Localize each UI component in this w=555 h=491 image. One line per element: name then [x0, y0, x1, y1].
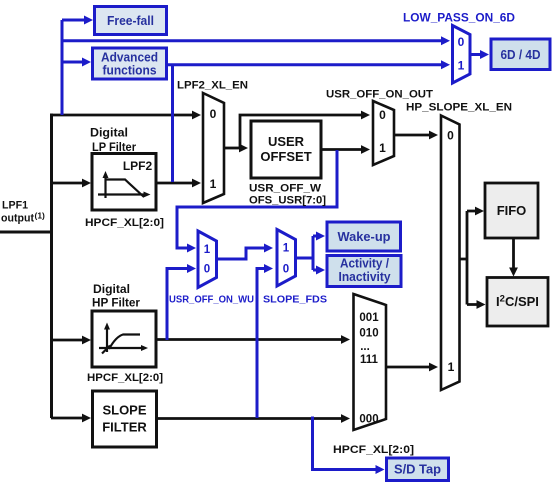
svg-text:Activity /: Activity /	[340, 257, 389, 271]
svg-text:OFS_USR[7:0]: OFS_USR[7:0]	[249, 195, 326, 207]
wire HP_SLOPE mux output to FIFO and I2C/SPI	[459, 211, 477, 305]
wire blue riser to Free-fall and Advanced functions	[62, 20, 85, 115]
icon LP filter response curve	[104, 175, 106, 198]
wire blue from Advanced functions to LOW_PASS_ON_6D mux input 1	[167, 63, 442, 66]
svg-text:Free-fall: Free-fall	[107, 14, 154, 28]
svg-text:0: 0	[283, 264, 289, 276]
wire blue from HP filter output to USR_OFF_ON_WU mux input 0	[167, 269, 188, 341]
mux HPCF_XL selector 001..111 / 000	[354, 294, 387, 430]
svg-text:OFFSET: OFFSET	[260, 149, 311, 164]
wire trunk to SLOPE FILTER box input	[51, 417, 83, 420]
mux LPF2_XL_EN	[203, 93, 224, 203]
svg-text:1: 1	[448, 360, 455, 374]
svg-text:LOW_PASS_ON_6D: LOW_PASS_ON_6D	[403, 13, 515, 25]
wire main trunk vertical	[50, 114, 53, 419]
svg-text:USER: USER	[268, 134, 305, 149]
wire trunk to LPF2 box input	[51, 182, 83, 185]
wire LPF2 box output to mux input 1	[156, 182, 193, 185]
wire blue from SLOPE FILTER output to SLOPE_FDS mux input 0	[257, 269, 265, 419]
wire LPF1 output into trunk	[0, 231, 52, 234]
wire bypass over USER OFFSET to USR_OFF_ON_OUT mux input 0	[240, 115, 362, 148]
svg-text:HPCF_XL[2:0]: HPCF_XL[2:0]	[87, 372, 163, 384]
icon HP filter response curve	[106, 328, 108, 352]
svg-text:FIFO: FIFO	[497, 203, 527, 218]
svg-text:0: 0	[210, 107, 217, 121]
box 6D / 4D	[491, 39, 550, 70]
wire HPCF mux output to HP_SLOPE mux input 1	[386, 366, 430, 369]
box USER OFFSET	[251, 121, 321, 178]
svg-text:001: 001	[359, 312, 379, 324]
svg-text:LPF2: LPF2	[123, 159, 153, 173]
svg-text:FILTER: FILTER	[102, 420, 147, 435]
svg-text:Inactivity: Inactivity	[339, 270, 391, 284]
svg-text:...: ...	[360, 341, 370, 353]
svg-text:SLOPE_FDS: SLOPE_FDS	[263, 294, 327, 306]
svg-text:USR_OFF_ON_WU: USR_OFF_ON_WU	[169, 294, 254, 306]
svg-text:Digital: Digital	[93, 284, 130, 296]
wire SLOPE_FDS mux output to Wake-up and Activity	[296, 236, 318, 270]
svg-text:USR_OFF_ON_OUT: USR_OFF_ON_OUT	[326, 89, 433, 101]
box Activity / Inactivity	[327, 256, 401, 287]
mux USR_OFF_ON_WU blue	[198, 231, 217, 288]
svg-text:0: 0	[379, 108, 386, 122]
svg-text:1: 1	[283, 243, 290, 255]
svg-text:Advanced: Advanced	[101, 51, 158, 65]
box FIFO	[485, 183, 538, 238]
svg-text:LPF2_XL_EN: LPF2_XL_EN	[177, 80, 248, 92]
wire blue long line to LOW_PASS_ON_6D mux input 0	[62, 39, 442, 42]
svg-text:HPCF_XL[2:0]: HPCF_XL[2:0]	[85, 217, 164, 229]
svg-text:SLOPE: SLOPE	[102, 403, 146, 418]
wire HP filter output to HPCF mux input	[156, 338, 342, 341]
box Wake-up	[327, 222, 401, 251]
wire blue from USER OFFSET output to USR_OFF_ON_WU mux input 1	[177, 150, 337, 248]
svg-text:6D / 4D: 6D / 4D	[501, 48, 541, 62]
svg-text:S/D Tap: S/D Tap	[394, 463, 441, 477]
mux SLOPE_FDS blue	[277, 230, 296, 287]
wire LOW_PASS_ON_6D output to 6D/4D box	[470, 53, 481, 56]
mux USR_OFF_ON_OUT	[373, 101, 394, 165]
box Free-fall	[95, 7, 167, 35]
box LPF2 digital LP filter	[92, 154, 156, 211]
svg-text:111: 111	[360, 354, 379, 366]
wire blue from SLOPE FILTER line down to S/D Tap	[313, 417, 377, 470]
svg-text:000: 000	[359, 414, 378, 426]
svg-text:0: 0	[458, 35, 465, 49]
mux LOW_PASS_ON_6D blue	[453, 26, 471, 84]
wire trunk to HP filter box input	[51, 339, 83, 342]
box S/D Tap	[387, 458, 449, 481]
svg-text:0: 0	[204, 264, 210, 276]
wire USR_OFF_ON_WU mux output to SLOPE_FDS mux input 1	[217, 248, 266, 259]
svg-text:HPCF_XL[2:0]: HPCF_XL[2:0]	[333, 444, 414, 456]
box SLOPE FILTER	[93, 391, 157, 447]
svg-text:1: 1	[204, 244, 211, 256]
svg-text:1: 1	[458, 59, 465, 73]
wire USR_OFF_ON_OUT mux output to HP_SLOPE mux input 0	[394, 134, 430, 137]
wire trunk to LPF2_XL_EN mux input 0	[51, 114, 193, 117]
wire USER OFFSET output to USR_OFF_ON_OUT mux input 1	[321, 148, 362, 151]
svg-text:HP Filter: HP Filter	[92, 298, 141, 310]
svg-text:LP Filter: LP Filter	[92, 142, 136, 154]
svg-text:Wake-up: Wake-up	[338, 230, 391, 244]
wire SLOPE FILTER output to HPCF mux input 000	[157, 417, 342, 420]
svg-text:1: 1	[379, 141, 386, 155]
wire blue from Advanced functions line tapping LPF2 output	[171, 65, 174, 182]
mux HP_SLOPE_XL_EN tall	[441, 116, 460, 391]
box I2C/SPI	[487, 278, 548, 327]
wire FIFO to I2C/SPI	[512, 238, 515, 268]
svg-text:output: output	[1, 213, 34, 225]
wire LPF2_XL_EN mux output to USER OFFSET	[224, 147, 240, 150]
svg-text:LPF1: LPF1	[2, 200, 28, 212]
svg-text:010: 010	[359, 328, 378, 340]
svg-text:1: 1	[210, 177, 217, 191]
svg-text:HP_SLOPE_XL_EN: HP_SLOPE_XL_EN	[406, 102, 512, 114]
svg-text:(1): (1)	[35, 211, 46, 221]
box Advanced functions	[93, 48, 167, 79]
svg-text:functions: functions	[103, 64, 157, 78]
svg-text:Digital: Digital	[90, 128, 128, 140]
svg-text:USR_OFF_W: USR_OFF_W	[249, 183, 322, 195]
box HP filter	[92, 311, 156, 367]
svg-text:0: 0	[447, 129, 454, 143]
